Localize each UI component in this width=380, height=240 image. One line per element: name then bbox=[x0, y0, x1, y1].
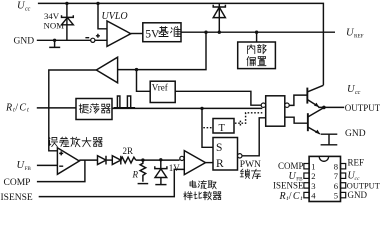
hysteresis marks -o+ bbox=[85, 34, 100, 38]
wire Ufb input bbox=[37, 164, 58, 166]
svg-text:cc: cc bbox=[355, 90, 361, 96]
svg-text:t: t bbox=[301, 195, 303, 202]
diode D1 (Ucc-Uref) bbox=[218, 3, 220, 32]
svg-text:UVLO: UVLO bbox=[102, 11, 128, 22]
svg-text:6: 6 bbox=[334, 181, 339, 191]
wire Q1 base bbox=[289, 95, 307, 105]
svg-text:7: 7 bbox=[334, 171, 339, 181]
zener diode 34V bbox=[62, 15, 74, 25]
wire ISENSE bbox=[39, 169, 184, 196]
transistor Q1 bbox=[306, 88, 308, 104]
svg-text:C: C bbox=[19, 103, 26, 114]
svg-text:OUTPUT: OUTPUT bbox=[347, 181, 380, 190]
svg-text:NOM: NOM bbox=[44, 21, 65, 31]
pin 5 right bbox=[341, 192, 346, 197]
junction GND-ground bbox=[53, 39, 56, 42]
IC package body bbox=[309, 156, 340, 201]
svg-text:REF: REF bbox=[354, 34, 364, 40]
pin 1 left bbox=[304, 164, 309, 169]
ground (output stage) bbox=[321, 134, 338, 145]
wire zener branch bbox=[66, 3, 68, 40]
wire comparator to R input bbox=[206, 162, 214, 164]
svg-text:Vref: Vref bbox=[152, 83, 168, 93]
junction R tap bbox=[141, 158, 144, 161]
svg-text:ISENSE: ISENSE bbox=[273, 181, 304, 191]
svg-text:R: R bbox=[5, 103, 12, 114]
junction Uref-bias bbox=[255, 31, 258, 34]
wire UVLO out bbox=[131, 33, 143, 35]
wire latch S input bbox=[202, 108, 213, 147]
svg-text:GND: GND bbox=[345, 129, 366, 139]
label 锁存 bbox=[240, 169, 261, 179]
wire Vref box input bbox=[137, 70, 151, 92]
resistor 2R bbox=[121, 157, 136, 163]
wire bbox=[106, 159, 112, 161]
pin 2 left bbox=[304, 173, 309, 178]
dashed T output path bbox=[235, 113, 262, 126]
svg-text:3: 3 bbox=[311, 181, 315, 191]
label 振荡器 bbox=[79, 104, 110, 114]
pin 3 left bbox=[304, 183, 309, 188]
svg-text:COMP: COMP bbox=[4, 178, 31, 188]
wire UVLO top input bbox=[98, 3, 107, 28]
transistor Q2 bbox=[307, 113, 309, 131]
svg-text:COMP: COMP bbox=[278, 161, 304, 171]
wire output bbox=[318, 106, 344, 108]
wire Ucc top rail bbox=[38, 3, 324, 85]
svg-text:t: t bbox=[27, 107, 29, 114]
label 偏置 bbox=[247, 57, 266, 66]
wire Vref to gate bbox=[175, 91, 261, 105]
junction Uref-diode bbox=[218, 31, 221, 34]
block oscillator 振荡器 bbox=[76, 99, 112, 120]
svg-text:OUTPUT: OUTPUT bbox=[345, 103, 380, 113]
svg-text:GND: GND bbox=[348, 190, 368, 200]
op-amp error amplifier bbox=[57, 148, 79, 175]
svg-text:5V: 5V bbox=[145, 28, 160, 40]
op-amp buffer (left-pointing) bbox=[96, 57, 117, 83]
latch output bubble bbox=[238, 154, 242, 158]
gate output bubble bbox=[285, 103, 289, 107]
pin 8 right bbox=[341, 164, 346, 169]
ground (R) bbox=[138, 183, 149, 185]
svg-text:/: / bbox=[289, 191, 292, 202]
wire to comparator bbox=[136, 159, 180, 161]
pin 7 right bbox=[341, 173, 346, 178]
block 5V reference bbox=[143, 23, 181, 42]
svg-text:REF: REF bbox=[348, 158, 365, 168]
wire Rt/Ct input bbox=[37, 107, 76, 109]
junction Uref-buffer bbox=[204, 31, 207, 34]
junction zener tap bbox=[159, 158, 162, 161]
svg-text:2: 2 bbox=[311, 171, 315, 181]
svg-text:2R: 2R bbox=[123, 146, 134, 156]
svg-text:R: R bbox=[279, 191, 286, 202]
gate block bbox=[266, 96, 285, 126]
svg-text:T: T bbox=[219, 123, 226, 134]
diode D3 bbox=[112, 156, 121, 165]
svg-text:1: 1 bbox=[311, 162, 315, 172]
pin 6 right bbox=[341, 183, 346, 188]
wire GND rail bbox=[37, 39, 107, 41]
svg-text:PWN: PWN bbox=[240, 160, 261, 170]
svg-text:34V: 34V bbox=[44, 11, 60, 21]
label 电流取 bbox=[190, 181, 216, 189]
wire latch out to gate bbox=[242, 118, 266, 156]
op-amp UVLO comparator bbox=[107, 21, 131, 46]
dashed wire into T bbox=[203, 127, 212, 129]
diode D2 bbox=[98, 156, 107, 165]
zener diode 1V bbox=[155, 160, 167, 184]
svg-text:FB: FB bbox=[25, 166, 32, 172]
svg-text:cc: cc bbox=[25, 7, 31, 13]
block Vref bbox=[150, 81, 175, 102]
svg-text:GND: GND bbox=[14, 37, 35, 47]
junction Vref tap bbox=[135, 68, 138, 71]
gate input bubble bbox=[261, 103, 265, 107]
svg-text:5: 5 bbox=[334, 190, 338, 200]
svg-text:R: R bbox=[132, 170, 139, 180]
wire oscillator out bbox=[112, 107, 262, 109]
ground (zener) bbox=[155, 184, 166, 186]
clock pulses glyph bbox=[114, 107, 136, 109]
svg-text:/: / bbox=[15, 103, 18, 114]
svg-text:ISENSE: ISENSE bbox=[1, 193, 33, 203]
ground (top-left) bbox=[49, 40, 60, 47]
wire Q2 base bbox=[285, 117, 308, 123]
block T flip-flop bbox=[213, 119, 234, 134]
label 内部 bbox=[247, 44, 266, 54]
svg-text:8: 8 bbox=[334, 162, 338, 172]
package notch bbox=[319, 157, 328, 162]
junction Q2 collector-output bbox=[322, 106, 326, 110]
junction Ucc-zener bbox=[65, 2, 68, 5]
pin 4 left bbox=[304, 192, 309, 197]
wire buffer out feedback bbox=[49, 70, 97, 151]
svg-text:1V: 1V bbox=[169, 163, 181, 173]
wire error amp out bbox=[79, 159, 97, 161]
svg-text:R: R bbox=[216, 158, 224, 170]
label 基准 bbox=[159, 27, 181, 37]
op-amp current sense comparator bbox=[180, 156, 184, 160]
wire COMP bbox=[37, 160, 85, 181]
junction osc-latch bbox=[200, 107, 203, 110]
block internal bias 内部偏置 bbox=[238, 42, 276, 69]
wire Uref rail bbox=[181, 31, 335, 33]
junction Ucc-UVLO bbox=[96, 2, 99, 5]
label 误差放大器 bbox=[49, 137, 102, 147]
wire Uref to buffer input bbox=[118, 32, 206, 69]
label 样比较器 bbox=[184, 191, 221, 200]
resistor R vertical bbox=[140, 160, 146, 182]
svg-text:4: 4 bbox=[311, 190, 316, 200]
svg-text:C: C bbox=[293, 191, 300, 202]
wire bias branch bbox=[256, 32, 258, 42]
svg-text:S: S bbox=[216, 142, 222, 154]
latch PWN box S/R bbox=[213, 138, 238, 171]
